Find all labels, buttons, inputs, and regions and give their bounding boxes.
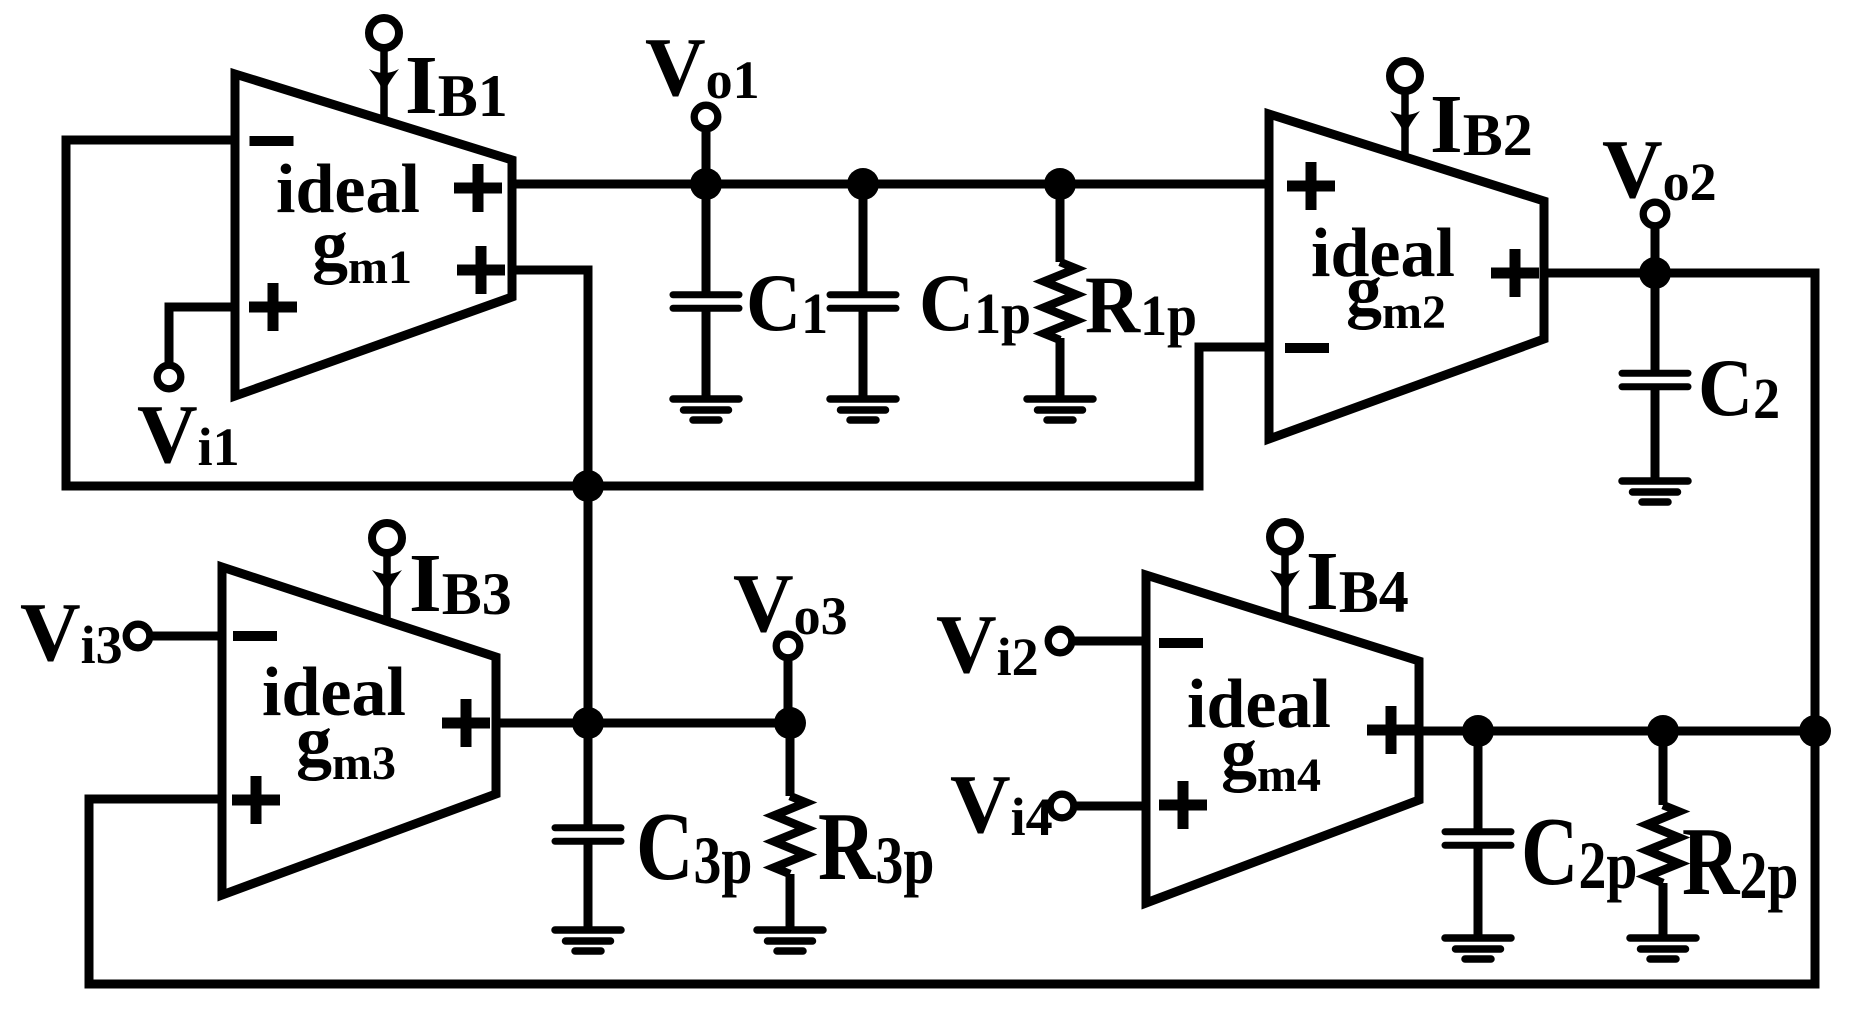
gm1 output pin marker (upper +) bbox=[454, 164, 502, 212]
wire gm1 output to gm2 non-inverting input (net Vo1) bbox=[512, 180, 1269, 189]
wire R3p top lead bbox=[786, 723, 795, 796]
capacitor C1 bbox=[673, 295, 739, 309]
ground (C2p) bbox=[1445, 938, 1511, 959]
IB4 bias current arrow bbox=[1270, 570, 1300, 595]
wire C3p bottom lead bbox=[584, 843, 593, 930]
op-amp U1 OTA gm1 body bbox=[235, 74, 512, 396]
gm4 inverting input pin marker bbox=[1159, 638, 1203, 648]
wire Vi1 to gm1 non-inverting input bbox=[169, 307, 235, 377]
terminal Vo2 bbox=[1643, 202, 1667, 226]
capacitor C3p bbox=[555, 828, 621, 842]
wire IB1 bias lead bbox=[380, 45, 388, 120]
wire gm2 output to right bus, bottom return, gm3 non-inverting input (net Vo2) bbox=[89, 273, 1815, 984]
wire Vi2 to gm4 inverting input bbox=[1060, 637, 1146, 646]
node Vo3 left junction bbox=[572, 707, 604, 739]
terminal Vi2 bbox=[1048, 629, 1072, 653]
node R1p junction bbox=[1044, 168, 1076, 200]
wire R1p bottom lead bbox=[1056, 338, 1065, 399]
ground (C3p) bbox=[555, 930, 621, 951]
node C1p junction bbox=[847, 168, 879, 200]
ground (C1p) bbox=[830, 399, 896, 420]
svg-text:ideal: ideal bbox=[262, 654, 406, 731]
resistor R3p bbox=[774, 796, 806, 874]
wire C2p top lead bbox=[1474, 731, 1483, 830]
wire C2p bottom lead bbox=[1474, 847, 1483, 938]
resistor R1p bbox=[1044, 262, 1076, 340]
gm1 output pin marker (lower +) bbox=[457, 246, 505, 294]
wire gm1 second output down to node A and gm3 output node bbox=[512, 270, 588, 723]
wire C2 top lead bbox=[1651, 273, 1660, 371]
wire IB4 bias lead bbox=[1281, 548, 1289, 619]
wire R1p top lead bbox=[1056, 184, 1065, 262]
gm1 non-inverting input pin marker bbox=[249, 283, 297, 331]
capacitor C1p bbox=[830, 295, 896, 309]
wire gm4 output row to right bus bbox=[1419, 727, 1815, 736]
gm2 output pin marker (+) bbox=[1491, 249, 1539, 297]
op-amp U2 OTA gm2 body bbox=[1269, 114, 1544, 439]
node right-bus junction bbox=[1799, 715, 1831, 747]
ground (R1p) bbox=[1027, 399, 1093, 420]
wire gm1 inverting-input feedback loop (left) + node-A horizontal + gm2 inverting input bbox=[66, 140, 1269, 486]
capacitor C2 bbox=[1622, 373, 1688, 387]
wire Vi3 to gm3 inverting input bbox=[138, 632, 222, 641]
terminal IB2 bbox=[1390, 61, 1420, 91]
wire gm3 output row (net Vo3) bbox=[496, 719, 790, 728]
capacitor C2p bbox=[1445, 832, 1511, 846]
svg-text:ideal: ideal bbox=[1311, 215, 1455, 292]
wire C3p top lead bbox=[584, 723, 593, 826]
gm4 non-inverting input pin marker bbox=[1159, 781, 1207, 829]
node A junction (feedback) bbox=[572, 470, 604, 502]
terminal Vi3 bbox=[126, 624, 150, 648]
wire IB3 bias lead bbox=[383, 549, 391, 621]
ground (R2p) bbox=[1630, 938, 1696, 959]
terminal IB3 bbox=[372, 523, 402, 553]
ground (R3p) bbox=[757, 930, 823, 951]
ground (C2) bbox=[1622, 481, 1688, 502]
gm3 inverting input pin marker bbox=[233, 631, 277, 641]
wire R2p top lead bbox=[1659, 731, 1668, 805]
node Vo1 junction bbox=[690, 168, 722, 200]
gm3 non-inverting input pin marker bbox=[232, 776, 280, 824]
IB1 bias current arrow bbox=[369, 69, 399, 94]
wire R3p bottom lead bbox=[786, 874, 795, 930]
wire C2 bottom lead bbox=[1651, 389, 1660, 481]
gm3 output pin marker (+) bbox=[442, 699, 490, 747]
resistor R2p bbox=[1647, 805, 1679, 883]
node R2p junction bbox=[1647, 715, 1679, 747]
wire C1 top lead bbox=[702, 184, 711, 293]
terminal IB4 bbox=[1270, 522, 1300, 552]
wire R2p bottom lead bbox=[1659, 883, 1668, 938]
ground (C1) bbox=[673, 399, 739, 420]
terminal Vo3 bbox=[776, 634, 800, 658]
wire Vo3 terminal lead bbox=[784, 646, 793, 723]
gm1 inverting input pin marker bbox=[250, 136, 294, 146]
node Vo3 right junction bbox=[774, 707, 806, 739]
IB2 bias current arrow bbox=[1390, 111, 1420, 136]
svg-text:ideal: ideal bbox=[1187, 666, 1331, 743]
node C2p junction bbox=[1462, 715, 1494, 747]
op-amp U4 OTA gm4 body bbox=[1146, 575, 1419, 903]
wire C1p bottom lead bbox=[859, 310, 868, 399]
terminal IB1 bbox=[369, 18, 399, 48]
wire Vi4 to gm4 non-inverting input bbox=[1062, 802, 1146, 811]
terminal Vi1 bbox=[157, 365, 181, 389]
wire IB2 bias lead bbox=[1401, 87, 1409, 157]
gm4 output pin marker (+) bbox=[1367, 706, 1415, 754]
node Vo2 junction bbox=[1639, 257, 1671, 289]
terminal Vo1 bbox=[694, 105, 718, 129]
op-amp U3 OTA gm3 body bbox=[222, 567, 496, 895]
wire C1 bottom lead bbox=[702, 310, 711, 399]
IB3 bias current arrow bbox=[372, 570, 402, 595]
terminal Vi4 bbox=[1050, 794, 1074, 818]
wire Vo1 terminal lead bbox=[702, 117, 711, 184]
gm2 non-inverting input pin marker bbox=[1287, 162, 1335, 210]
wire C1p top lead bbox=[859, 184, 868, 293]
wire Vo2 terminal lead bbox=[1651, 214, 1660, 273]
gm2 inverting input pin marker bbox=[1285, 343, 1329, 353]
